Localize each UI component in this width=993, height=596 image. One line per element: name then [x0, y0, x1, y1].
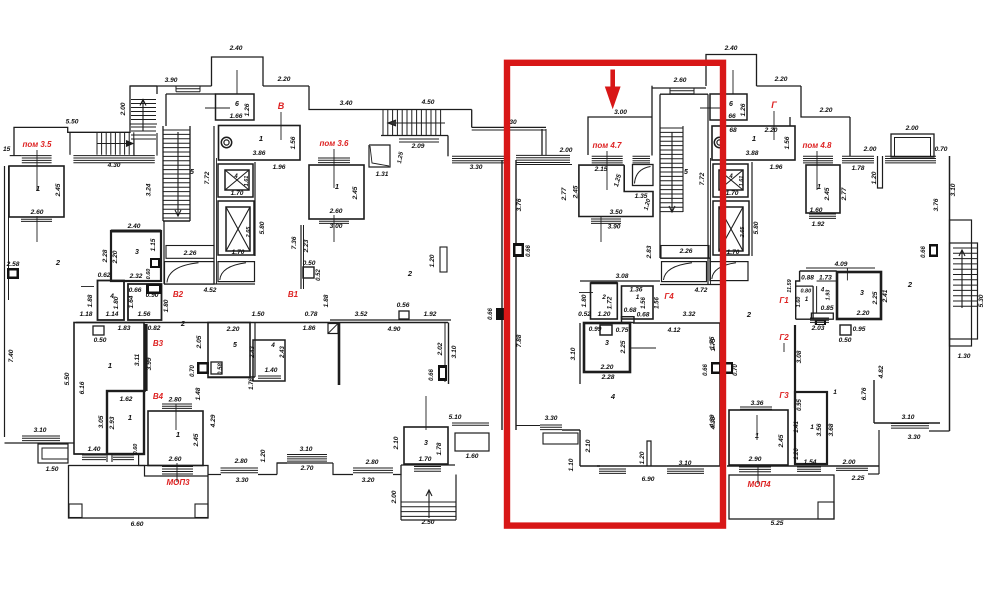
wall x255 right of room5 — [254, 323, 256, 378]
svg-text:1.73: 1.73 — [819, 275, 832, 282]
flue on right wall left bldg — [496, 308, 504, 320]
svg-text:1: 1 — [108, 361, 112, 370]
window band left of red box — [452, 155, 504, 157]
svg-text:1.56: 1.56 — [784, 136, 791, 149]
svg-text:0.62: 0.62 — [98, 272, 111, 279]
svg-text:3.10: 3.10 — [570, 347, 577, 360]
svg-text:2.10: 2.10 — [585, 439, 592, 453]
flue box left wall — [7, 268, 19, 279]
svg-text:1.78: 1.78 — [436, 442, 443, 455]
svg-text:0.90: 0.90 — [146, 292, 159, 299]
elevator shaft 1 left — [218, 164, 253, 197]
svg-text:1.80: 1.80 — [581, 294, 588, 307]
svg-text:6.60: 6.60 — [131, 521, 144, 528]
svg-text:6: 6 — [729, 101, 733, 108]
svg-text:1.26: 1.26 — [740, 103, 747, 116]
svg-text:1.83: 1.83 — [118, 325, 131, 332]
svg-text:4.52: 4.52 — [203, 287, 217, 294]
svg-text:1: 1 — [810, 424, 814, 431]
svg-text:4: 4 — [233, 174, 238, 180]
svg-text:1.66: 1.66 — [230, 113, 243, 120]
svg-text:2.80: 2.80 — [168, 397, 182, 404]
svg-text:2.45: 2.45 — [352, 186, 359, 200]
svg-text:3.99: 3.99 — [146, 357, 153, 370]
balcony small left — [38, 444, 68, 463]
svg-text:6.16: 6.16 — [79, 381, 86, 394]
outer wall left edge — [4, 166, 6, 437]
elevator shaft 2 right — [713, 201, 749, 255]
protrusion 1.20 red bottom — [647, 441, 651, 466]
red stairwell walls — [659, 94, 661, 258]
svg-text:3.20: 3.20 — [362, 477, 375, 484]
svg-text:Г4: Г4 — [664, 292, 674, 301]
left wall of stair zone — [163, 221, 165, 284]
stair right wall step — [471, 110, 473, 128]
svg-text:6: 6 — [235, 101, 239, 108]
double line 2.09 — [399, 138, 439, 140]
svg-text:2.43: 2.43 — [280, 346, 286, 359]
svg-text:3.30: 3.30 — [908, 434, 921, 441]
bottom wall segment 3.30 — [208, 474, 221, 476]
big room 1 lower-left — [74, 323, 144, 455]
ramp box 1 left — [165, 262, 215, 285]
svg-text:2.00: 2.00 — [863, 146, 877, 153]
svg-text:В3: В3 — [153, 339, 164, 348]
svg-text:2.77: 2.77 — [561, 187, 568, 201]
wall down to window band — [541, 129, 543, 156]
svg-text:4.39: 4.39 — [709, 414, 716, 428]
external stair right — [950, 220, 972, 346]
small box 0.50 right — [840, 325, 851, 335]
svg-text:0.78: 0.78 — [305, 311, 318, 318]
stairwell-shaft wall right — [707, 94, 709, 284]
svg-text:4.82: 4.82 — [878, 365, 885, 379]
svg-text:2.45: 2.45 — [193, 433, 200, 447]
svg-text:0.80: 0.80 — [800, 289, 811, 295]
svg-text:2: 2 — [180, 319, 186, 328]
window 2.03 — [810, 317, 829, 319]
svg-text:0.85: 0.85 — [821, 305, 834, 312]
bottom balcony right — [729, 475, 834, 519]
ramp box 2 left — [218, 262, 255, 282]
svg-text:Г: Г — [771, 100, 777, 110]
svg-text:1.56: 1.56 — [655, 297, 661, 309]
dim line B — [280, 112, 282, 140]
black box 0.66 on wall — [438, 365, 447, 381]
svg-text:2.20: 2.20 — [774, 76, 788, 83]
svg-text:7.72: 7.72 — [699, 172, 706, 185]
trapezoid vent 1.31 — [369, 145, 390, 167]
dim line pom3.5 vertical — [36, 150, 38, 190]
svg-text:1.70: 1.70 — [727, 249, 740, 256]
step to east bottom — [878, 430, 880, 474]
east room bottom wall — [874, 422, 940, 424]
elevator shaft 2 left — [218, 201, 254, 255]
room 4 small — [98, 281, 125, 321]
svg-text:3.10: 3.10 — [300, 446, 313, 453]
wall 3.08 — [580, 280, 660, 282]
room 1 G3 — [795, 392, 827, 464]
svg-text:1.48: 1.48 — [195, 387, 202, 400]
stair landing walls — [133, 139, 135, 156]
svg-text:2.25: 2.25 — [851, 475, 865, 482]
svg-text:0.66: 0.66 — [526, 245, 532, 257]
svg-text:2.28: 2.28 — [102, 249, 109, 263]
svg-text:3.10: 3.10 — [34, 427, 47, 434]
svg-text:15: 15 — [3, 146, 11, 153]
svg-text:2.15: 2.15 — [594, 166, 608, 173]
window 2.60 — [670, 90, 694, 92]
svg-text:2.60: 2.60 — [673, 77, 687, 84]
svg-text:1.70: 1.70 — [726, 190, 739, 197]
svg-text:3.88: 3.88 — [746, 150, 759, 157]
room 5 — [208, 323, 250, 378]
svg-text:0.66: 0.66 — [129, 287, 142, 294]
room 1 pom4.8 — [806, 165, 840, 213]
room 1 right section — [712, 126, 795, 160]
svg-text:3.32: 3.32 — [683, 311, 696, 318]
svg-text:4: 4 — [728, 174, 733, 180]
svg-text:1: 1 — [636, 294, 640, 301]
svg-text:7.88: 7.88 — [516, 334, 523, 347]
svg-text:1.40: 1.40 — [265, 367, 278, 374]
room 4 red outline — [579, 323, 581, 384]
svg-text:2.23: 2.23 — [303, 239, 310, 253]
bottom right outline — [727, 465, 879, 467]
svg-text:1.72: 1.72 — [607, 296, 614, 309]
svg-text:пом 3.6: пом 3.6 — [319, 139, 349, 148]
svg-text:пом 4.7: пом 4.7 — [592, 141, 622, 150]
small box 0.56 — [399, 311, 409, 319]
svg-text:2.65: 2.65 — [246, 226, 252, 239]
svg-text:3.56: 3.56 — [816, 423, 823, 436]
svg-text:5.50: 5.50 — [66, 119, 79, 126]
red stair down arrow — [671, 132, 673, 212]
window below room 1 — [21, 216, 52, 218]
room 3 red thick — [584, 323, 630, 372]
ramp box pom4.7 — [633, 165, 654, 186]
svg-text:7.72: 7.72 — [204, 171, 211, 184]
svg-text:1.14: 1.14 — [106, 311, 119, 318]
svg-text:1.56: 1.56 — [138, 311, 151, 318]
box 2.26 left — [166, 246, 214, 259]
svg-text:3: 3 — [860, 290, 864, 297]
svg-text:2.45: 2.45 — [573, 185, 580, 199]
wall 2.60 — [652, 87, 706, 89]
wall x795 G2 — [794, 325, 796, 408]
shaft right wall right-section — [751, 162, 753, 256]
bottom middle step — [333, 463, 353, 475]
svg-text:1.62: 1.62 — [120, 396, 133, 403]
svg-text:1.70: 1.70 — [231, 190, 244, 197]
svg-text:1.15: 1.15 — [150, 238, 157, 251]
svg-text:2.20: 2.20 — [856, 310, 870, 317]
svg-text:2.03: 2.03 — [811, 325, 825, 332]
svg-text:2: 2 — [907, 280, 913, 289]
step up to 3.10 window — [277, 463, 287, 475]
svg-text:1.54: 1.54 — [804, 459, 817, 466]
svg-text:5.10: 5.10 — [449, 414, 462, 421]
svg-text:2.40: 2.40 — [127, 223, 141, 230]
svg-text:0.60: 0.60 — [133, 444, 139, 455]
svg-text:МОП3: МОП3 — [166, 478, 190, 487]
east room west wall — [873, 380, 875, 423]
room 1 MOP4 — [729, 410, 788, 465]
svg-text:1.70: 1.70 — [419, 456, 432, 463]
svg-text:0.50: 0.50 — [303, 260, 316, 267]
svg-text:3.90: 3.90 — [608, 224, 621, 231]
balcony red left — [540, 424, 562, 426]
svg-text:2.93: 2.93 — [109, 416, 116, 430]
pom 4.7 protrusion — [588, 117, 652, 155]
svg-text:2: 2 — [407, 269, 413, 278]
window on 3.90 wall — [176, 88, 200, 90]
svg-text:2.09: 2.09 — [411, 143, 425, 150]
upper stair (4.50) treads — [382, 110, 384, 135]
svg-text:1: 1 — [36, 184, 40, 193]
svg-text:3.08: 3.08 — [616, 273, 629, 280]
wall x448 to window — [447, 136, 449, 157]
svg-text:3.76: 3.76 — [933, 198, 940, 211]
red highlight rectangle — [507, 63, 723, 526]
black box pair mid — [197, 362, 209, 374]
left stair down arrow — [177, 132, 179, 216]
svg-text:1.96: 1.96 — [273, 164, 286, 171]
svg-text:2.26: 2.26 — [679, 248, 693, 255]
roof line 3.90 — [130, 85, 212, 87]
bottom stair center — [400, 475, 402, 521]
svg-text:0.52: 0.52 — [578, 311, 591, 318]
wall 2.20 inner — [789, 117, 791, 126]
svg-text:0.50: 0.50 — [94, 337, 107, 344]
thin rect 1.20 center — [440, 247, 447, 272]
left step red bottom — [516, 425, 540, 427]
svg-text:0.58: 0.58 — [218, 363, 224, 375]
wall step to 3.40 — [309, 86, 472, 110]
svg-text:1: 1 — [259, 134, 263, 143]
svg-text:1: 1 — [817, 182, 821, 191]
washer circle — [221, 137, 231, 147]
room small B2 — [128, 284, 162, 320]
G1 rooms block — [806, 267, 875, 269]
wall y320 center — [330, 319, 451, 321]
svg-text:1: 1 — [335, 182, 339, 191]
svg-text:В4: В4 — [153, 392, 164, 401]
small diag box — [328, 324, 338, 334]
svg-text:МОП4: МОП4 — [747, 480, 771, 489]
balcony right of room3 — [455, 433, 489, 451]
svg-text:2.10: 2.10 — [393, 436, 400, 450]
window above room 1 — [22, 155, 52, 157]
ramp box 2 red — [710, 262, 748, 281]
pom 3.5 protrusion wall — [14, 127, 130, 155]
wall 4.72 — [709, 258, 711, 262]
svg-text:2.28: 2.28 — [601, 374, 615, 381]
svg-text:3.00: 3.00 — [614, 109, 627, 116]
dim line from top box — [239, 45, 241, 57]
svg-text:1.60: 1.60 — [810, 207, 823, 214]
svg-text:3.76: 3.76 — [516, 198, 523, 211]
threshold boxes G1 — [811, 313, 833, 319]
room 4 lower (2.43) — [253, 340, 285, 381]
svg-text:1.92: 1.92 — [424, 311, 437, 318]
svg-text:5: 5 — [190, 169, 194, 176]
svg-text:2.83: 2.83 — [646, 245, 653, 259]
red bottom windows — [599, 468, 626, 470]
svg-text:2.80: 2.80 — [365, 459, 379, 466]
window 5.10 — [452, 422, 489, 424]
svg-text:2.20: 2.20 — [764, 127, 778, 134]
svg-text:5.80: 5.80 — [753, 221, 760, 234]
wall 4.72 line — [660, 284, 726, 286]
svg-text:1.20: 1.20 — [794, 448, 800, 460]
svg-text:2.20: 2.20 — [277, 76, 291, 83]
threshold box G4 — [622, 317, 635, 323]
wall 4.52 — [164, 283, 255, 285]
svg-text:2.32: 2.32 — [129, 273, 143, 280]
svg-text:2.80: 2.80 — [234, 458, 248, 465]
wall x850 down — [849, 117, 851, 156]
stairwell-shaft wall left — [213, 126, 215, 284]
svg-text:В: В — [278, 101, 285, 111]
svg-text:3.24: 3.24 — [146, 183, 153, 196]
big balcony left — [69, 466, 209, 519]
room 3 right thick — [837, 272, 881, 319]
svg-text:1.80: 1.80 — [113, 296, 120, 309]
red stair bottom wall — [660, 257, 710, 259]
room 2 small red — [591, 283, 618, 319]
mid walls: room3 center-left — [111, 231, 161, 281]
svg-text:1.50: 1.50 — [46, 466, 59, 473]
svg-text:3.86: 3.86 — [253, 150, 266, 157]
svg-text:4.30: 4.30 — [107, 162, 121, 169]
svg-text:2.65: 2.65 — [740, 226, 746, 239]
svg-text:3.90: 3.90 — [165, 77, 178, 84]
svg-text:6.90: 6.90 — [642, 476, 655, 483]
svg-text:2.25: 2.25 — [620, 340, 627, 354]
window bottom big room — [74, 453, 84, 455]
svg-text:3.05: 3.05 — [98, 415, 105, 428]
svg-text:1.50: 1.50 — [252, 311, 265, 318]
right lobby wall — [651, 86, 653, 156]
upper stair arrow left — [388, 122, 445, 124]
svg-text:1.88: 1.88 — [87, 294, 94, 307]
right outer wall — [949, 156, 951, 431]
svg-text:4.50: 4.50 — [421, 99, 435, 106]
svg-text:3.10: 3.10 — [451, 345, 458, 358]
shaft left wall — [254, 162, 256, 256]
pom3.6 dim line — [333, 149, 335, 188]
elevator shaft 1 right — [713, 164, 748, 197]
left stair lower flight — [162, 126, 164, 221]
svg-text:66: 66 — [728, 113, 736, 120]
svg-text:1.70: 1.70 — [232, 249, 245, 256]
room 6 right — [710, 94, 747, 120]
top box 2.40 left — [212, 57, 264, 86]
svg-text:1: 1 — [128, 413, 132, 422]
svg-text:2.45: 2.45 — [55, 183, 62, 197]
niche 0.50 — [93, 326, 104, 335]
svg-text:1.40: 1.40 — [88, 446, 101, 453]
room 1 pom3.6 — [309, 165, 364, 219]
lower block top wall — [76, 322, 448, 324]
svg-text:4.90: 4.90 — [387, 326, 401, 333]
svg-text:2.20: 2.20 — [226, 326, 240, 333]
svg-text:6.76: 6.76 — [861, 387, 868, 400]
svg-text:1.18: 1.18 — [80, 311, 93, 318]
wall 2.20 segment — [263, 85, 309, 87]
protrusion 1.20 right — [878, 156, 883, 188]
svg-text:0.68: 0.68 — [637, 312, 650, 319]
svg-text:1.80: 1.80 — [163, 299, 170, 312]
svg-text:1.30: 1.30 — [958, 353, 971, 360]
svg-text:2.70: 2.70 — [300, 465, 314, 472]
svg-text:0.70: 0.70 — [733, 364, 739, 376]
svg-text:2.20: 2.20 — [112, 250, 119, 264]
svg-text:1.56: 1.56 — [641, 297, 647, 309]
svg-text:3.36: 3.36 — [751, 400, 764, 407]
svg-text:2: 2 — [55, 258, 61, 267]
svg-text:3.11: 3.11 — [134, 353, 141, 366]
svg-text:1.41: 1.41 — [794, 421, 800, 433]
svg-text:1.64: 1.64 — [128, 295, 135, 308]
wall B3 thick — [144, 324, 147, 391]
svg-text:2.43: 2.43 — [250, 346, 256, 359]
svg-text:1: 1 — [752, 134, 756, 143]
svg-text:4: 4 — [270, 342, 275, 349]
svg-text:2.00: 2.00 — [559, 147, 573, 154]
svg-text:0.75: 0.75 — [616, 327, 629, 334]
svg-text:0.66: 0.66 — [703, 364, 709, 376]
svg-text:68: 68 — [729, 127, 737, 134]
svg-text:3.50: 3.50 — [610, 209, 623, 216]
svg-text:Г3: Г3 — [779, 391, 789, 400]
wall B4 and inner room — [107, 390, 146, 392]
svg-text:2.58: 2.58 — [6, 261, 20, 268]
svg-text:2.20: 2.20 — [600, 364, 614, 371]
svg-text:3.68: 3.68 — [828, 423, 835, 436]
svg-text:3.10: 3.10 — [902, 414, 915, 421]
wall 2.20 right a — [757, 85, 802, 87]
top box 2.40 right — [706, 55, 757, 87]
svg-text:2.00: 2.00 — [391, 490, 398, 504]
window 3.10 bottom — [287, 454, 327, 456]
svg-text:3.08: 3.08 — [796, 350, 803, 363]
svg-text:0.70: 0.70 — [935, 146, 948, 153]
svg-text:30: 30 — [509, 119, 517, 126]
svg-text:1.36: 1.36 — [630, 287, 643, 294]
svg-text:2.25: 2.25 — [872, 291, 879, 305]
svg-text:0.95: 0.95 — [853, 326, 866, 333]
ramp box 1 red — [662, 262, 707, 282]
svg-text:0.66: 0.66 — [429, 369, 435, 381]
svg-text:1.75: 1.75 — [709, 336, 716, 349]
svg-text:0.88: 0.88 — [801, 275, 814, 282]
svg-text:3.30: 3.30 — [545, 415, 558, 422]
flue right bldg — [929, 244, 938, 257]
room 1 (section B) — [219, 126, 301, 161]
svg-text:2.90: 2.90 — [748, 456, 762, 463]
svg-text:3.30: 3.30 — [236, 477, 249, 484]
room 1 bottom middle — [148, 411, 203, 466]
svg-text:0.99: 0.99 — [589, 326, 602, 333]
wall down x801 — [801, 86, 850, 117]
svg-text:11.59: 11.59 — [787, 278, 793, 292]
center room 4.90 walls — [338, 323, 341, 386]
svg-text:1.20: 1.20 — [429, 254, 436, 267]
svg-text:В1: В1 — [288, 290, 299, 299]
svg-text:2.26: 2.26 — [183, 250, 197, 257]
